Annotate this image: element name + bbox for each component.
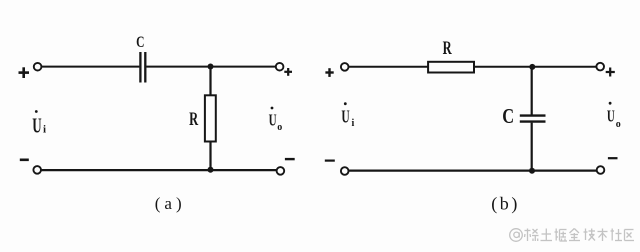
svg-text:R: R xyxy=(189,110,198,130)
svg-text:i: i xyxy=(43,124,46,136)
she xyxy=(611,229,623,241)
shu xyxy=(598,229,608,242)
terminal a-output-bottom xyxy=(277,167,285,175)
svg-text:R: R xyxy=(443,39,452,59)
polarity - (a output bottom) xyxy=(285,158,295,160)
svg-text:o: o xyxy=(277,122,282,133)
terminal b-input-bottom xyxy=(341,167,349,175)
polarity - (b output bottom) xyxy=(608,157,618,159)
capacitor C2 plates (b) xyxy=(520,116,546,122)
svg-text:U: U xyxy=(341,108,349,127)
svg-text:C: C xyxy=(136,35,144,52)
polarity + (a input top) xyxy=(19,67,30,78)
jue xyxy=(555,229,568,242)
svg-text:C: C xyxy=(502,105,514,128)
svg-text:(b): (b) xyxy=(491,193,520,214)
xi xyxy=(525,229,539,242)
polarity - (b input bottom) xyxy=(325,160,335,162)
@ xyxy=(510,229,523,242)
label Uo (a) xyxy=(269,107,283,133)
tu xyxy=(541,229,553,241)
qu xyxy=(625,230,635,241)
wire b top-right segment xyxy=(474,66,596,68)
capacitor C1 plates (a) xyxy=(140,52,145,83)
wire a bottom xyxy=(41,169,276,171)
polarity + (b output top) xyxy=(606,68,615,77)
terminal b-output-top xyxy=(596,63,604,71)
wire b vertical to capacitor xyxy=(531,67,533,115)
label Uo (b) xyxy=(607,102,621,130)
resistor R2 body (b) xyxy=(428,62,474,73)
wire a top-left segment xyxy=(42,66,140,68)
svg-text:U: U xyxy=(607,107,615,126)
svg-text:U: U xyxy=(269,111,277,130)
terminal b-output-bottom xyxy=(597,166,605,174)
resistor R1 body (a) xyxy=(205,95,216,141)
polarity + (a output top) xyxy=(284,68,292,76)
svg-text:U: U xyxy=(32,113,42,137)
junction a-top xyxy=(208,64,214,70)
ji xyxy=(584,229,596,241)
junction b-bottom xyxy=(529,168,535,174)
svg-text:(a): (a) xyxy=(155,194,186,213)
wire a vertical to resistor xyxy=(209,67,211,96)
terminal a-input-bottom xyxy=(33,166,41,174)
wire b capacitor to bottom xyxy=(531,123,533,171)
terminal b-input-top xyxy=(341,63,349,71)
wire a top-right segment xyxy=(146,66,275,68)
terminal a-output-top xyxy=(276,63,284,71)
svg-text:o: o xyxy=(616,119,621,130)
terminal a-input-top xyxy=(34,63,42,71)
watermark @xitu juejin community xyxy=(510,229,634,242)
junction a-bottom xyxy=(208,167,214,173)
wire b bottom xyxy=(349,170,597,172)
junction b-top xyxy=(529,64,535,70)
jin xyxy=(569,229,580,241)
polarity + (b input top) xyxy=(325,68,333,77)
wire b top-left segment xyxy=(349,66,429,68)
svg-text:i: i xyxy=(352,118,355,129)
wire a resistor to bottom xyxy=(209,142,211,171)
label Ui (a) xyxy=(32,110,46,137)
label Ui (b) xyxy=(341,102,354,129)
polarity - (a input bottom) xyxy=(20,159,29,162)
